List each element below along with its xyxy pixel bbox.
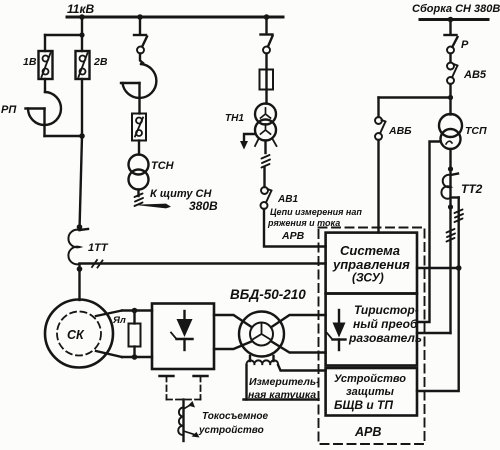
svg-text:Токосъемное: Токосъемное — [202, 411, 269, 422]
svg-text:ТСН: ТСН — [151, 160, 175, 172]
svg-text:АРВ: АРВ — [354, 425, 381, 439]
svg-text:АРВ: АРВ — [281, 230, 305, 242]
svg-text:СК: СК — [67, 328, 85, 342]
svg-text:АВ1: АВ1 — [277, 194, 298, 205]
svg-text:ТТ2: ТТ2 — [461, 182, 483, 196]
svg-text:11кВ: 11кВ — [67, 2, 95, 16]
svg-text:РП: РП — [1, 104, 17, 116]
svg-text:Цепи измерения нап: Цепи измерения нап — [270, 207, 362, 217]
svg-text:АВ5: АВ5 — [463, 69, 487, 81]
svg-text:1ТТ: 1ТТ — [88, 242, 109, 254]
svg-text:Ял: Ял — [112, 315, 126, 326]
svg-text:Система: Система — [340, 243, 400, 258]
svg-text:2В: 2В — [93, 56, 108, 68]
svg-text:1В: 1В — [23, 56, 37, 68]
svg-text:ная катушка: ная катушка — [248, 389, 316, 401]
svg-text:380В: 380В — [189, 199, 218, 213]
svg-text:ВБД-50-210: ВБД-50-210 — [230, 287, 306, 302]
svg-text:ряжения и тока: ряжения и тока — [267, 218, 340, 228]
svg-text:защиты: защиты — [346, 386, 395, 398]
svg-text:Сборка СН 380В: Сборка СН 380В — [412, 3, 500, 15]
svg-text:разователь: разователь — [348, 331, 422, 345]
svg-text:(ЗСУ): (ЗСУ) — [352, 271, 384, 285]
svg-text:устройство: устройство — [198, 425, 264, 436]
svg-text:Тиристор-: Тиристор- — [354, 303, 419, 317]
svg-text:ный преоб: ный преоб — [353, 317, 418, 331]
svg-text:Измеритель-: Измеритель- — [249, 376, 320, 388]
svg-text:Устройство: Устройство — [334, 373, 406, 385]
svg-text:Р: Р — [461, 39, 469, 51]
svg-text:БЩВ и ТП: БЩВ и ТП — [334, 398, 393, 412]
svg-text:ТСП: ТСП — [465, 125, 487, 137]
svg-text:АВБ: АВБ — [388, 125, 412, 137]
svg-text:ТН1: ТН1 — [225, 113, 244, 124]
